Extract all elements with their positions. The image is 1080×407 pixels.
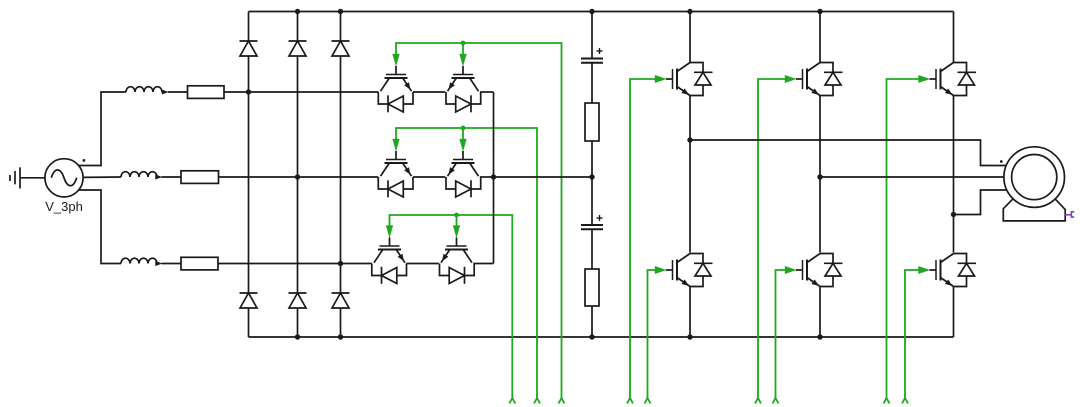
inductor L1 [126, 87, 168, 95]
wire [819, 287, 821, 337]
junction phase node leg 3 [951, 212, 956, 217]
motor polarity dot [1000, 160, 1003, 163]
wire phase A to bridge [224, 91, 378, 93]
IGBT T2a (bidirectional switch row 2 left) [378, 151, 413, 197]
diode D6 (bottom) [332, 293, 350, 308]
gate arrow T1b [460, 54, 467, 66]
wire inverter leg 3 collector [953, 12, 955, 63]
gate wire S3 [884, 79, 919, 404]
wire inverter leg 1 collector [689, 12, 691, 63]
junction bottom bus leg 2 [817, 334, 822, 339]
junction top bus DC link [589, 9, 594, 14]
junction top bus leg3 [338, 9, 343, 14]
wire phase C from source [79, 190, 122, 264]
wire [591, 141, 593, 177]
gate junction row 2 [461, 126, 466, 131]
IGBT S6 (inverter leg 3 lower) [930, 254, 977, 287]
diode D2 (top) [289, 41, 307, 56]
junction phase node leg 1 [687, 137, 692, 142]
wire between T2a and T2b [413, 176, 445, 178]
wire [591, 177, 593, 225]
gate junction row 1 [461, 41, 466, 46]
diode D3 (top) [332, 41, 350, 56]
resistor R1 [188, 86, 225, 99]
junction top bus leg 1 [687, 9, 692, 14]
wire inverter leg3 to motor [954, 190, 1007, 215]
capacitor C2 [581, 215, 603, 229]
junction bottom bus leg 1 [687, 334, 692, 339]
junction switch common [491, 174, 496, 179]
wire [819, 96, 821, 178]
gate wire S6 [902, 270, 919, 404]
wire between T1a and T1b [413, 91, 445, 93]
IGBT S2 (inverter leg 2 upper) [796, 63, 843, 96]
gate wire S4 [645, 270, 656, 404]
wire [953, 215, 955, 253]
wire [689, 287, 691, 337]
IGBT S5 (inverter leg 2 lower) [796, 254, 843, 287]
IGBT S1 (inverter leg 1 upper) [666, 63, 713, 96]
wire DC link lower [591, 306, 593, 337]
IGBT T1a (bidirectional switch row 1 left) [378, 66, 413, 112]
wire to DC midpoint [494, 176, 593, 178]
gate arrow T3a [386, 226, 393, 238]
wire row3 output [473, 263, 493, 265]
resistor R3 [181, 257, 218, 270]
wire rectifier leg 1 [248, 12, 250, 338]
junction phase C leg3 [338, 261, 343, 266]
resistor R5 [585, 269, 599, 306]
motor mount [1003, 199, 1065, 221]
motor shaft terminal [1065, 212, 1074, 217]
wire phase B to bridge [219, 176, 379, 178]
wire [591, 63, 593, 103]
gate arrow T3b [453, 226, 460, 238]
junction phase node leg 2 [817, 174, 822, 179]
IGBT T3b (bidirectional switch row 3 right) [440, 238, 475, 284]
wire [162, 263, 182, 265]
junction DC midpoint [589, 174, 594, 179]
wire bottom DC bus [249, 336, 954, 338]
wire DC link upper [591, 12, 593, 59]
wire inverter leg 2 collector [819, 12, 821, 63]
junction top bus leg 2 [817, 9, 822, 14]
IGBT S3 (inverter leg 3 upper) [930, 63, 977, 96]
gate arrow T2a [393, 139, 400, 151]
junction phase B leg2 [295, 174, 300, 179]
gate wire S5 [773, 270, 786, 404]
junction bottom bus DC link [589, 334, 594, 339]
wire ground to source [20, 177, 45, 179]
wire phase B from source [83, 176, 121, 178]
gate wire row 3 [390, 215, 516, 404]
gate arrow S6 [919, 266, 930, 273]
wire [168, 91, 188, 93]
diode D5 (bottom) [289, 293, 307, 308]
resistor R4 [585, 103, 599, 141]
diode D4 (bottom) [240, 293, 258, 308]
IGBT T2b (bidirectional switch row 2 right) [446, 151, 481, 197]
wire [953, 96, 955, 215]
ground [10, 167, 20, 188]
wire row1 output [480, 91, 494, 93]
gate arrow S1 [655, 75, 666, 82]
source polarity dot [83, 159, 86, 162]
wire [591, 229, 593, 269]
wire inverter leg1 to motor [690, 140, 1007, 166]
wire phase A from source [79, 92, 127, 166]
IGBT S4 (inverter leg 1 lower) [666, 254, 713, 287]
wire [689, 140, 691, 253]
wire inverter leg2 to motor [820, 176, 1004, 178]
capacitor C1 [581, 48, 603, 63]
gate arrow S4 [655, 266, 666, 273]
wire row2 output [480, 176, 494, 178]
svg-text:V_3ph: V_3ph [45, 199, 83, 214]
junction bottom bus leg3 [338, 334, 343, 339]
gate wire S2 [755, 79, 785, 404]
gate arrow S3 [919, 75, 930, 82]
wire [162, 176, 182, 178]
gate arrow S5 [785, 266, 796, 273]
motor M1 body [1004, 147, 1065, 208]
ac source V_3ph [45, 159, 83, 197]
wire rectifier leg 2 [297, 12, 299, 338]
IGBT T3a (bidirectional switch row 3 left) [372, 238, 407, 284]
label V_3ph [45, 199, 83, 214]
inductor L3 [121, 258, 162, 266]
gate wire row 2 [396, 128, 540, 404]
gate arrow T1a [393, 54, 400, 66]
wire between T3a and T3b [407, 263, 439, 265]
gate wire row 1 [396, 43, 565, 404]
wire phase C to bridge [218, 263, 372, 265]
IGBT T1b (bidirectional switch row 1 right) [446, 66, 481, 112]
resistor R2 [181, 171, 219, 184]
diode D1 (top) [240, 41, 258, 56]
wire [953, 287, 955, 337]
wire top DC bus [249, 11, 954, 13]
gate arrow T2b [460, 139, 467, 151]
gate junction row 3 [454, 213, 459, 218]
wire [819, 177, 821, 253]
wire rectifier leg 3 [340, 12, 342, 338]
junction top bus leg2 [295, 9, 300, 14]
gate wire S1 [627, 79, 655, 404]
gate arrow S2 [785, 75, 796, 82]
wire switch common vertical [493, 92, 495, 264]
junction bottom bus leg2 [295, 334, 300, 339]
junction phase A leg1 [246, 89, 251, 94]
wire [689, 96, 691, 141]
inductor L2 [121, 172, 162, 180]
